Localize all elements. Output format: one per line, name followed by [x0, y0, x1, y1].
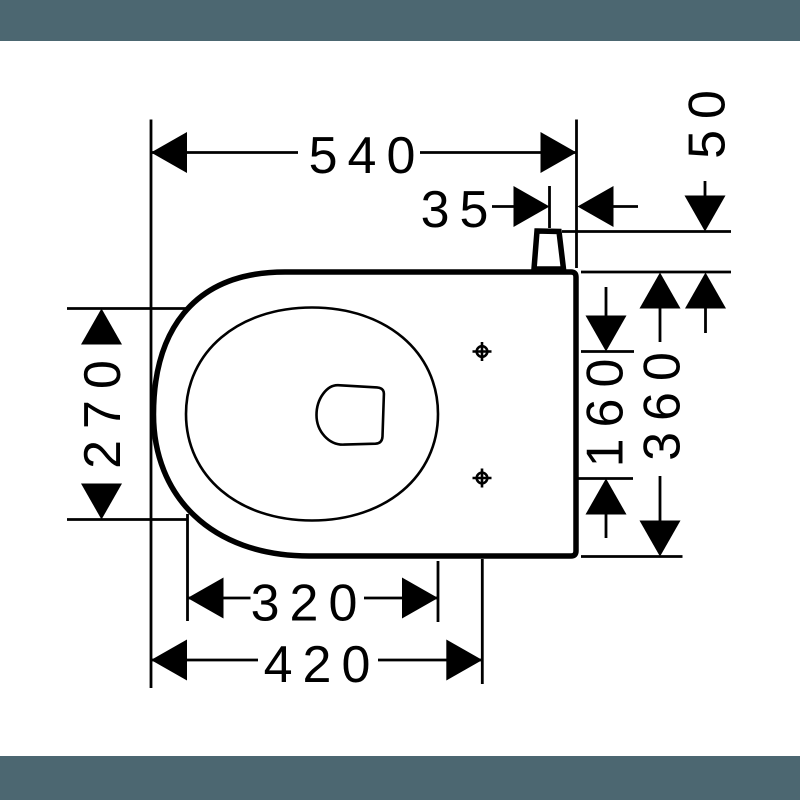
extension line 35-left (x=549.5) [548, 186, 551, 228]
svg-text:160: 160 [577, 348, 635, 468]
svg-text:35: 35 [421, 181, 499, 239]
svg-text:360: 360 [634, 341, 692, 461]
extension line left (x=151, shared by 540/420) [150, 120, 153, 689]
dimension 35 line [492, 205, 514, 208]
extension line 420-right (x=481.5) [481, 559, 484, 684]
svg-text:270: 270 [74, 349, 132, 469]
svg-text:540: 540 [309, 127, 426, 185]
mounting hole bottom [473, 469, 492, 488]
cistern flush button [534, 231, 564, 269]
dimension 270 [67, 307, 190, 310]
top banner bar [0, 0, 800, 41]
dimension 540 line [151, 151, 298, 154]
arrowhead 35 (outside, pointing right) [514, 186, 550, 227]
svg-text:50: 50 [679, 79, 737, 159]
extension line 320-left (x=187.5) [186, 514, 189, 621]
arrowhead 540 left [151, 132, 187, 173]
inner bowl rim (seat opening) [186, 308, 438, 521]
dimension 160 [581, 350, 634, 353]
dimension 360 [640, 273, 681, 309]
svg-text:420: 420 [264, 636, 381, 694]
reference line tank-top (y=272) [581, 271, 731, 274]
arrowhead 35 (outside, pointing left) [578, 186, 614, 227]
dimension 320 line [188, 597, 251, 600]
extension line 320-right (x=438) [437, 561, 440, 622]
dimension 50 arrows [704, 181, 707, 200]
dimension 420 line [151, 659, 258, 662]
reference line tank-bottom (y=556.5) [581, 555, 683, 558]
toilet outer outline [154, 272, 577, 556]
svg-text:320: 320 [251, 575, 368, 633]
arrowhead 540 right [541, 132, 577, 173]
tail of 35 right arrow [614, 205, 639, 208]
drain hole [317, 385, 384, 444]
extension line right (x=576.5, shared by 540/35) [575, 120, 578, 269]
reference line button-top (50 dim, y=231.5) [562, 230, 731, 233]
bottom banner bar [0, 756, 800, 800]
mounting hole top [473, 342, 492, 361]
